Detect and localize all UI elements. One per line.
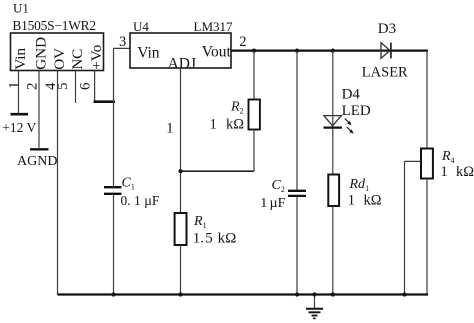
svg-text:1: 1 [7, 82, 23, 90]
module U1 box [11, 33, 104, 71]
wire D4 top [332, 51, 334, 128]
svg-text:1kΩ: 1kΩ [348, 193, 382, 209]
wire U4 pin3 horizontal [113, 47, 130, 49]
svg-text:1: 1 [166, 120, 173, 136]
wire pin1 to +12V terminal [18, 71, 20, 114]
wire pin5 NC stub [75, 71, 77, 104]
svg-text:0. 1 µF: 0. 1 µF [121, 193, 160, 208]
junction node C1 bottom [111, 292, 115, 296]
svg-text:Vout: Vout [202, 44, 232, 61]
junction node Rd1 bottom [331, 292, 335, 296]
wire R2 bottom [253, 130, 255, 172]
wire R4 tap vertical to ground rail [404, 161, 406, 294]
wire R4 bottom to ground rail [426, 179, 428, 295]
wire pin2 to AGND terminal [38, 71, 40, 148]
ground rail [58, 293, 429, 295]
ground symbol [306, 295, 323, 318]
wire R1 to ground rail [180, 245, 182, 295]
svg-text:GND: GND [33, 37, 50, 70]
svg-text:U1: U1 [13, 1, 29, 16]
LED D4 emission arrow 2 [347, 127, 354, 134]
wire D3 cathode to top right corner [391, 49, 392, 51]
capacitor C2 [288, 191, 306, 196]
wire D4 to Rd1 [332, 129, 334, 175]
svg-text:LED: LED [342, 103, 371, 119]
svg-text:1kΩ: 1kΩ [441, 164, 474, 180]
svg-text:D3: D3 [378, 21, 396, 37]
wire ADJ vertical [180, 68, 182, 213]
wire C2 top [296, 51, 298, 190]
svg-text:2: 2 [25, 83, 41, 91]
svg-text:Vin: Vin [137, 45, 160, 62]
svg-text:U4: U4 [133, 19, 149, 34]
AGND terminal bar [30, 148, 49, 150]
svg-text:LASER: LASER [362, 65, 408, 81]
svg-text:ADJ: ADJ [168, 55, 196, 72]
diode D3 cathode bar [390, 43, 392, 59]
svg-text:+Vo: +Vo [88, 44, 105, 70]
svg-text:B1505S−1WR2: B1505S−1WR2 [12, 18, 95, 33]
svg-text:Vin: Vin [12, 48, 29, 70]
junction node R1 bottom [178, 292, 182, 296]
svg-text:1kΩ: 1kΩ [210, 117, 245, 133]
junction node C2 bottom [295, 292, 299, 296]
svg-text:2: 2 [239, 34, 246, 50]
junction node ground stub [312, 292, 316, 296]
regulator U4 box [130, 33, 231, 68]
svg-text:AGND: AGND [17, 154, 57, 169]
wire pin6 +Vo down [94, 71, 96, 102]
wire pin4 OV down to ground rail [57, 71, 59, 295]
svg-text:+12 V: +12 V [2, 120, 36, 135]
junction node R2 top [252, 49, 256, 53]
diode D3 LASER triangle [381, 43, 390, 59]
capacitor C1 [104, 187, 122, 194]
resistor Rd1 [328, 175, 339, 207]
svg-text:LM317: LM317 [194, 19, 234, 34]
wire R2 top [253, 51, 255, 100]
wire Vout output rail [231, 49, 428, 51]
+12V terminal bar [11, 113, 29, 116]
wire C2 bottom [296, 197, 298, 295]
wire right vertical to R4 [426, 51, 428, 149]
junction node ADJ [178, 169, 182, 173]
wire Rd1 to ground rail [332, 206, 334, 295]
wire +Vo elbow thick [94, 100, 116, 103]
svg-text:6: 6 [78, 82, 94, 90]
junction node D4 top [331, 49, 335, 53]
wire R4 tap horizontal [405, 160, 422, 162]
svg-text:D4: D4 [342, 87, 361, 103]
resistor R1 [175, 213, 187, 245]
junction node C2 top [295, 49, 299, 53]
wire Vin net vertical upper [113, 48, 115, 187]
svg-text:3: 3 [119, 34, 126, 50]
svg-text:OV: OV [51, 48, 68, 70]
wire C1 to ground rail [113, 194, 115, 295]
wire ADJ to R2 horizontal [181, 170, 255, 172]
junction node tap bottom [402, 292, 406, 296]
LED D4 triangle [324, 116, 341, 126]
svg-text:1µF: 1µF [260, 196, 285, 211]
resistor R2 [249, 100, 260, 130]
resistor R4 [421, 149, 433, 179]
LED D4 emission arrow 1 [345, 119, 352, 126]
svg-text:NC: NC [69, 49, 86, 70]
LED D4 cathode bar [324, 126, 343, 128]
